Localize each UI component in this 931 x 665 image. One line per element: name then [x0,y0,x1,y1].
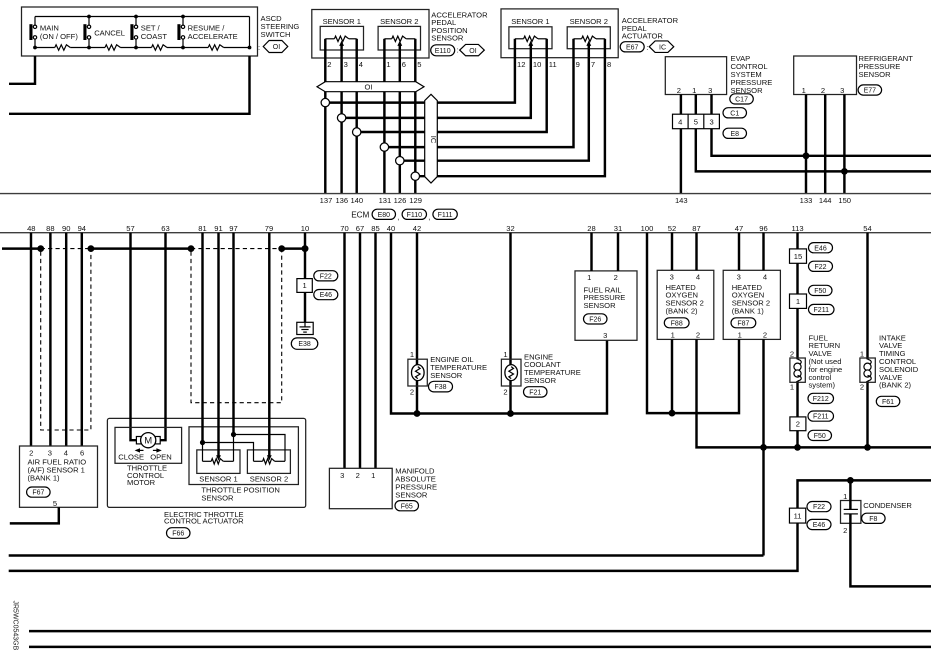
svg-text:2: 2 [614,273,618,282]
svg-text:3: 3 [737,273,741,282]
ASCD steering switch box [22,7,258,56]
svg-text:SENSOR: SENSOR [431,34,464,43]
svg-text:97: 97 [229,224,237,233]
air fuel ratio sensor box F67 [20,446,98,507]
svg-text:SENSOR 1: SENSOR 1 [511,17,549,26]
wire actuator pin8 branch [415,58,605,177]
svg-text:5: 5 [694,118,698,127]
svg-text:F65: F65 [401,503,413,510]
connector E80 oval [372,209,395,219]
connector F61 oval [876,396,900,406]
svg-text:100: 100 [641,224,654,233]
wire ECM 48 to A/F pin2 [30,233,32,446]
svg-text:SENSOR: SENSOR [201,493,234,502]
junction dot bus171/col150 [841,168,848,175]
svg-text:,: , [428,212,430,221]
svg-text:3: 3 [670,273,674,282]
junction dot condenser tap [847,477,854,484]
svg-text:C1: C1 [730,110,739,117]
svg-text:63: 63 [161,224,169,233]
wire actuator pin12 branch [325,58,515,103]
connector IC hexagon (actuator) [649,41,674,53]
resistor in RESUME/ACCELERATE branch [208,45,224,50]
svg-text:3: 3 [603,331,607,340]
wire actuator pin11 branch [357,58,547,132]
svg-text:129: 129 [409,196,422,205]
svg-text:2: 2 [821,86,825,95]
wire ECM 54 to bus447 [866,233,868,448]
svg-text:3: 3 [48,448,52,457]
svg-text:136: 136 [335,196,348,205]
junction dot col42 bus413 [414,410,421,417]
svg-text:9: 9 [576,60,580,69]
svg-text:52: 52 [668,224,676,233]
junction circle node col140 [353,128,361,136]
svg-text:F88: F88 [671,320,683,327]
actuator sensor 2 sub-box [567,27,610,49]
connector F21 oval [524,387,548,397]
svg-text:10: 10 [301,224,309,233]
svg-text:SENSOR: SENSOR [859,70,892,79]
svg-text:F38: F38 [434,384,446,391]
svg-text:15: 15 [794,252,802,261]
svg-text:1: 1 [802,86,806,95]
svg-text:F111: F111 [438,212,453,219]
ground bus 555 to left [9,554,764,556]
junction circle node col131 [380,143,388,151]
wire ECM 28 to FRP pin1 [590,233,592,271]
svg-text:,: , [397,212,399,221]
potentiometer actuator S2 [574,38,582,40]
svg-text:(BANK 1): (BANK 1) [28,474,61,483]
svg-text:1: 1 [503,350,507,359]
wiper arrow APP S1 to pin 3 [340,44,342,58]
junction dot bank2 pin1 [669,410,676,417]
junction circle node col129 [411,172,419,180]
svg-text:81: 81 [198,224,206,233]
wire ECM 91 wiper sensor1 [217,233,219,458]
wire ECM 79 wiper sensor2 [268,233,270,458]
wire ECM 32 to coolant temp sensor [509,233,511,414]
svg-text:2: 2 [796,420,800,429]
EVAP control system pressure sensor box C17 [665,57,726,95]
svg-text:(ON / OFF): (ON / OFF) [40,32,78,41]
junction dot col32 bus413 [507,410,514,417]
connector F211 oval lower [808,411,834,421]
svg-text:40: 40 [387,224,395,233]
potentiometer APP sensor 1 [325,38,334,40]
branch col97 to sensor2 right [234,435,286,462]
ground symbol E38 [297,322,313,334]
junction dots on shield bus [37,245,44,252]
wire ECM 70 to MAP pin3 [343,233,345,469]
junction dot col10 shield bus [302,245,309,252]
svg-text:(BANK 2): (BANK 2) [879,381,912,390]
potentiometer APP sensor 2 [384,38,391,40]
svg-text:137: 137 [320,196,333,205]
heated oxygen sensor 2 bank 2 box F88 [657,270,714,339]
svg-text:133: 133 [800,196,813,205]
connector F22 oval (col113) [809,261,833,271]
wire ECM 113 to bus447 [796,233,798,448]
svg-text:(BANK 1): (BANK 1) [732,307,765,316]
connector E46 oval (col10) [314,290,338,300]
shield dashed bus segment 1 [41,248,91,250]
ASCD bottom bus junctions [33,46,37,50]
condenser box F8 [841,501,861,524]
svg-text:96: 96 [759,224,767,233]
svg-text:2: 2 [327,60,331,69]
shield dashed bus segment 2 [191,248,282,250]
svg-text:1: 1 [692,86,696,95]
svg-text:JR5WC0543GB: JR5WC0543GB [12,601,19,651]
branch col81 to sensor2 left [203,443,254,462]
actuator sensor 1 sub-box [509,27,552,49]
connector box 1 on col10 [297,279,312,293]
connector F50 oval (col113 upper) [809,285,833,295]
EVAP connector block 4-5-3 [673,114,720,129]
svg-text:3: 3 [709,118,713,127]
svg-text:2: 2 [860,383,864,392]
wire actuator pin9 branch [384,58,573,147]
wire actuator pin7 branch [400,58,589,161]
wire EVAP pin1 to bus [696,95,931,172]
svg-text:10: 10 [533,60,541,69]
svg-text:OI: OI [469,48,476,55]
wire EVAP pin3 to bus [712,95,931,156]
connector F38 oval [429,381,453,392]
svg-text:7: 7 [591,60,595,69]
svg-text:1: 1 [796,297,800,306]
fuel return valve coil box [790,358,805,382]
junction circle node col126 [396,157,404,165]
wire A/F pin5 stub [10,507,59,523]
connector box 1 on col113 [790,294,807,308]
svg-text:F21: F21 [529,390,541,397]
svg-text:1: 1 [860,349,864,358]
wire ECM 81 to TPS pots [201,233,203,443]
svg-text:2: 2 [763,330,767,339]
wire ECM 94 to A/F pin6 [81,233,83,446]
svg-text:79: 79 [265,224,273,233]
wire ECM 96 to bank1 pin4 [762,233,764,271]
svg-text:48: 48 [27,224,35,233]
wiper arrow APP S2 to pin 6 [399,44,401,58]
wire refrigerant pin3 to ECM 150 [843,95,845,194]
wire ECM 97 to TPS pots [232,233,234,435]
svg-text:2: 2 [696,330,700,339]
svg-text:3: 3 [340,471,344,480]
svg-text:MOTOR: MOTOR [127,478,156,487]
svg-text:E46: E46 [813,522,826,529]
wire ECM 85 to MAP pin1 [374,233,376,469]
svg-text:F61: F61 [882,399,894,406]
switch CANCEL [88,17,90,26]
throttle position sensor box [189,427,298,485]
connector F65 oval [395,501,419,511]
wire APP pin2 to ECM 137 [324,58,326,194]
wire ASCD left lead to stub [9,56,35,84]
fuel return valve coil [792,359,804,381]
shield drain bus segments [2,247,41,249]
svg-text:42: 42 [413,224,421,233]
potentiometer actuator S1 [515,38,524,40]
wire act S2 right to pin 8 [604,39,606,58]
connector C1 oval [723,108,747,118]
svg-text:SENSOR: SENSOR [524,376,557,385]
svg-text:SENSOR 1: SENSOR 1 [199,474,237,483]
ground bus 571 with riser to condenser line [9,480,931,571]
connector F66 oval [167,528,191,539]
svg-text:M: M [144,435,152,446]
svg-text:5: 5 [417,60,421,69]
wire ECM 100 to HO2S pin1 bus [647,233,739,413]
svg-text:CLOSE: CLOSE [118,452,144,461]
wire act S1 left to pin 12 [514,39,516,58]
svg-text:28: 28 [587,224,595,233]
wire refrigerant pin2 to ECM 144 [824,95,826,194]
IC harness band [425,94,438,183]
svg-text:E8: E8 [730,131,739,138]
svg-text:1: 1 [587,273,591,282]
svg-text:126: 126 [394,196,407,205]
intake valve timing control solenoid coil box [860,358,875,382]
svg-text:IC: IC [429,136,438,144]
svg-text:ACTUATOR: ACTUATOR [622,32,664,41]
svg-text:3: 3 [344,60,348,69]
svg-text:2: 2 [843,526,847,535]
svg-text:2: 2 [503,388,507,397]
svg-text:system): system) [809,381,836,390]
svg-text:32: 32 [506,224,514,233]
connector F22 oval (11 box) [807,502,831,512]
svg-text:94: 94 [78,224,86,233]
svg-text:F66: F66 [172,531,184,538]
wire ASCD right lead to stub [9,56,250,114]
svg-text:2: 2 [356,471,360,480]
TPS sensor 2 sub-box [247,450,290,474]
svg-text:SENSOR: SENSOR [430,371,463,380]
accelerator pedal position sensor box E110 [312,10,429,59]
svg-text:F211: F211 [814,307,830,314]
junction dot bus155/col133 [803,152,810,159]
svg-text:6: 6 [80,448,84,457]
junction circle node col137 [321,98,329,106]
wiper arrow act S2 to pin 7 [588,44,590,58]
svg-text:E38: E38 [298,341,311,348]
wire ECM 63 to throttle motor [156,233,165,441]
connector F22 oval (col10) [314,271,338,281]
svg-text:4: 4 [678,118,682,127]
svg-text:ECM: ECM [351,210,369,219]
svg-text::: : [258,43,260,52]
connector OI hexagon (ASCD) [263,41,288,53]
svg-text:4: 4 [763,273,767,282]
svg-text:91: 91 [214,224,222,233]
junction dot col81 [200,440,205,445]
svg-text:1: 1 [671,330,675,339]
throttle control motor box [115,427,182,463]
svg-text:SENSOR: SENSOR [584,301,617,310]
svg-text:4: 4 [64,448,68,457]
connector E8 oval [723,128,747,138]
electric throttle control actuator box F66 [107,418,305,507]
connector E77 oval [858,85,882,95]
heated oxygen sensor 2 bank 1 box F87 [723,270,780,339]
bottom continuation wire 2 [29,646,931,648]
svg-text:F67: F67 [32,490,44,497]
connector F111 oval [433,209,457,219]
connector F8 oval [862,513,886,523]
svg-text:6: 6 [402,60,406,69]
ECM bottom boundary line [0,232,931,234]
svg-text:3: 3 [840,86,844,95]
svg-text:F212: F212 [813,396,829,403]
wire APP pin3 to ECM 136 [340,58,342,194]
svg-text:113: 113 [791,224,803,233]
svg-text:F22: F22 [814,264,826,271]
switch SET / COAST [135,17,137,26]
resistor in SET/COAST branch [152,45,168,50]
connector F67 oval [27,487,50,497]
connector E110 oval [431,45,455,56]
wire bank2 pin1 to bus413 [671,339,673,413]
svg-text:2: 2 [29,448,33,457]
svg-text:1: 1 [738,330,742,339]
refrigerant pressure sensor box E77 [794,56,857,95]
wire ECM 10 to ground [304,233,306,323]
wire refrigerant pin1 to ECM 133 [805,95,807,194]
svg-text:SENSOR 2: SENSOR 2 [380,17,418,26]
wire ECM 52 to bank2 pin3 [671,233,673,271]
wire APP pin1 to ECM 131 [383,58,385,194]
wire ECM 67 to MAP pin2 [359,233,361,469]
svg-text:5: 5 [53,499,57,508]
manifold absolute pressure sensor box F65 [329,468,392,508]
connector OI hexagon (APP) [460,44,485,55]
connector F87 oval [731,318,756,328]
svg-text:SENSOR 1: SENSOR 1 [323,17,361,26]
ASCD internal bottom bus wire [35,47,55,49]
wire ECM 90 to A/F pin4 [65,233,67,446]
wire act S2 left to pin 9 [572,39,574,58]
svg-text:2: 2 [410,388,414,397]
switch RESUME / ACCELERATE [182,17,184,26]
svg-text:F22: F22 [813,504,825,511]
svg-text:88: 88 [46,224,54,233]
svg-text:OPEN: OPEN [150,452,172,461]
connector C17 oval [730,94,754,104]
wire APP pin4 to ECM 140 [355,58,357,194]
svg-text:2: 2 [677,86,681,95]
wire act S1 right to pin 11 [545,39,547,58]
junction circle node col136 [337,114,345,122]
svg-text:144: 144 [819,196,832,205]
svg-text:1: 1 [386,60,390,69]
svg-text:1: 1 [410,350,414,359]
connector F88 oval [664,318,689,328]
svg-text:3: 3 [708,86,712,95]
ECM top boundary line [0,193,931,195]
wire ECM 42 to oil temp sensor [416,233,418,414]
OI harness band [317,82,424,92]
connector box 2 on col113 [790,417,806,431]
wire ECM 57 to throttle motor [131,233,141,441]
svg-text:1: 1 [843,492,847,501]
connector E38 oval [291,338,318,349]
connector box 15 on col113 [790,249,807,263]
wire ECM 40 to FRP pin3 via bus [391,233,607,414]
svg-text:90: 90 [62,224,70,233]
svg-text:OI: OI [273,44,280,51]
bottom continuation wire 1 [29,630,931,632]
svg-text:11: 11 [794,511,802,520]
svg-text:ACCELERATE: ACCELERATE [188,32,238,41]
svg-text:CONTROL ACTUATOR: CONTROL ACTUATOR [164,517,244,526]
close arrow [139,449,144,451]
engine coolant temperature sensor F21 [501,359,521,386]
svg-text:C17: C17 [735,97,748,104]
APP sensor 1 sub-box [320,26,363,50]
svg-text::: : [646,43,648,52]
svg-text:85: 85 [371,224,379,233]
wire ECM 47 to bank1 pin3 [738,233,740,271]
svg-text:F87: F87 [737,320,749,327]
resistor in MAIN branch [55,45,71,50]
shield dashed loop around A/F wires [41,252,91,431]
wire APP pin5 to ECM 129 [414,58,416,194]
resistor in CANCEL branch [105,45,121,50]
open arrow [153,449,158,451]
svg-text:E80: E80 [378,212,391,219]
IVT solenoid coil [862,359,874,381]
wire APP S2 left end to pin 1 [383,39,385,58]
wire APP S2 right end to pin 5 [414,39,416,58]
wire bank2 pin2 to ground bus [697,339,931,447]
svg-text:F211: F211 [813,414,829,421]
junction dot bank1 pin2 bus447 [760,444,767,451]
wire APP S1 right end to pin 4 [355,39,357,58]
junction dot col113 bus447 [794,444,801,451]
wire ECM 31 to FRP pin2 [617,233,619,271]
svg-text:54: 54 [863,224,871,233]
TPS sensor 1 sub-box [197,450,240,474]
svg-text:SENSOR 2: SENSOR 2 [250,474,288,483]
APP sensor 2 sub-box [378,26,420,50]
svg-text:11: 11 [549,60,557,69]
svg-text:8: 8 [607,60,611,69]
junction dot col97 [231,432,236,437]
ASCD internal right drop wire [249,17,251,48]
svg-text:F8: F8 [869,516,877,523]
svg-text:67: 67 [356,224,364,233]
wire APP S1 left end to pin 2 [324,39,326,58]
engine oil temperature sensor F38 [408,359,427,386]
svg-text:F26: F26 [589,317,601,324]
svg-text:131: 131 [379,196,392,205]
connector F110 oval [402,209,426,219]
connector F211 oval (col113) [809,304,835,314]
svg-text:57: 57 [126,224,134,233]
svg-text:143: 143 [675,196,688,205]
ASCD top bus junctions [87,15,91,19]
svg-text:F50: F50 [814,433,826,440]
svg-text:SENSOR 2: SENSOR 2 [570,17,608,26]
svg-text:E110: E110 [435,48,451,55]
connector E46 oval (11 box) [807,519,831,529]
connector F212 oval [808,393,834,403]
wire EVAP pin2 to ECM 143 [680,95,682,194]
